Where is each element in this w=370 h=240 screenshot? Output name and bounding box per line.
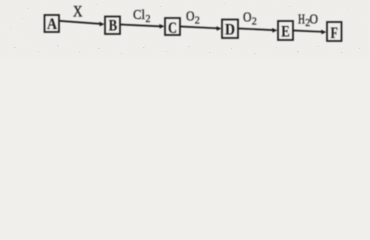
- svg-text:2: 2: [195, 15, 200, 26]
- svg-text:E: E: [281, 23, 290, 40]
- svg-text:O: O: [243, 9, 252, 24]
- svg-text:D: D: [225, 21, 235, 38]
- svg-text:O: O: [186, 8, 195, 23]
- svg-text:C: C: [168, 20, 177, 37]
- svg-text:2: 2: [252, 16, 257, 27]
- svg-text:O: O: [310, 11, 319, 26]
- svg-text:2: 2: [146, 14, 151, 25]
- svg-text:H: H: [298, 11, 305, 26]
- svg-text:A: A: [47, 16, 57, 33]
- svg-text:B: B: [109, 18, 118, 35]
- svg-text:F: F: [330, 25, 338, 42]
- svg-text:X: X: [73, 4, 83, 21]
- svg-text:Cl: Cl: [133, 7, 145, 22]
